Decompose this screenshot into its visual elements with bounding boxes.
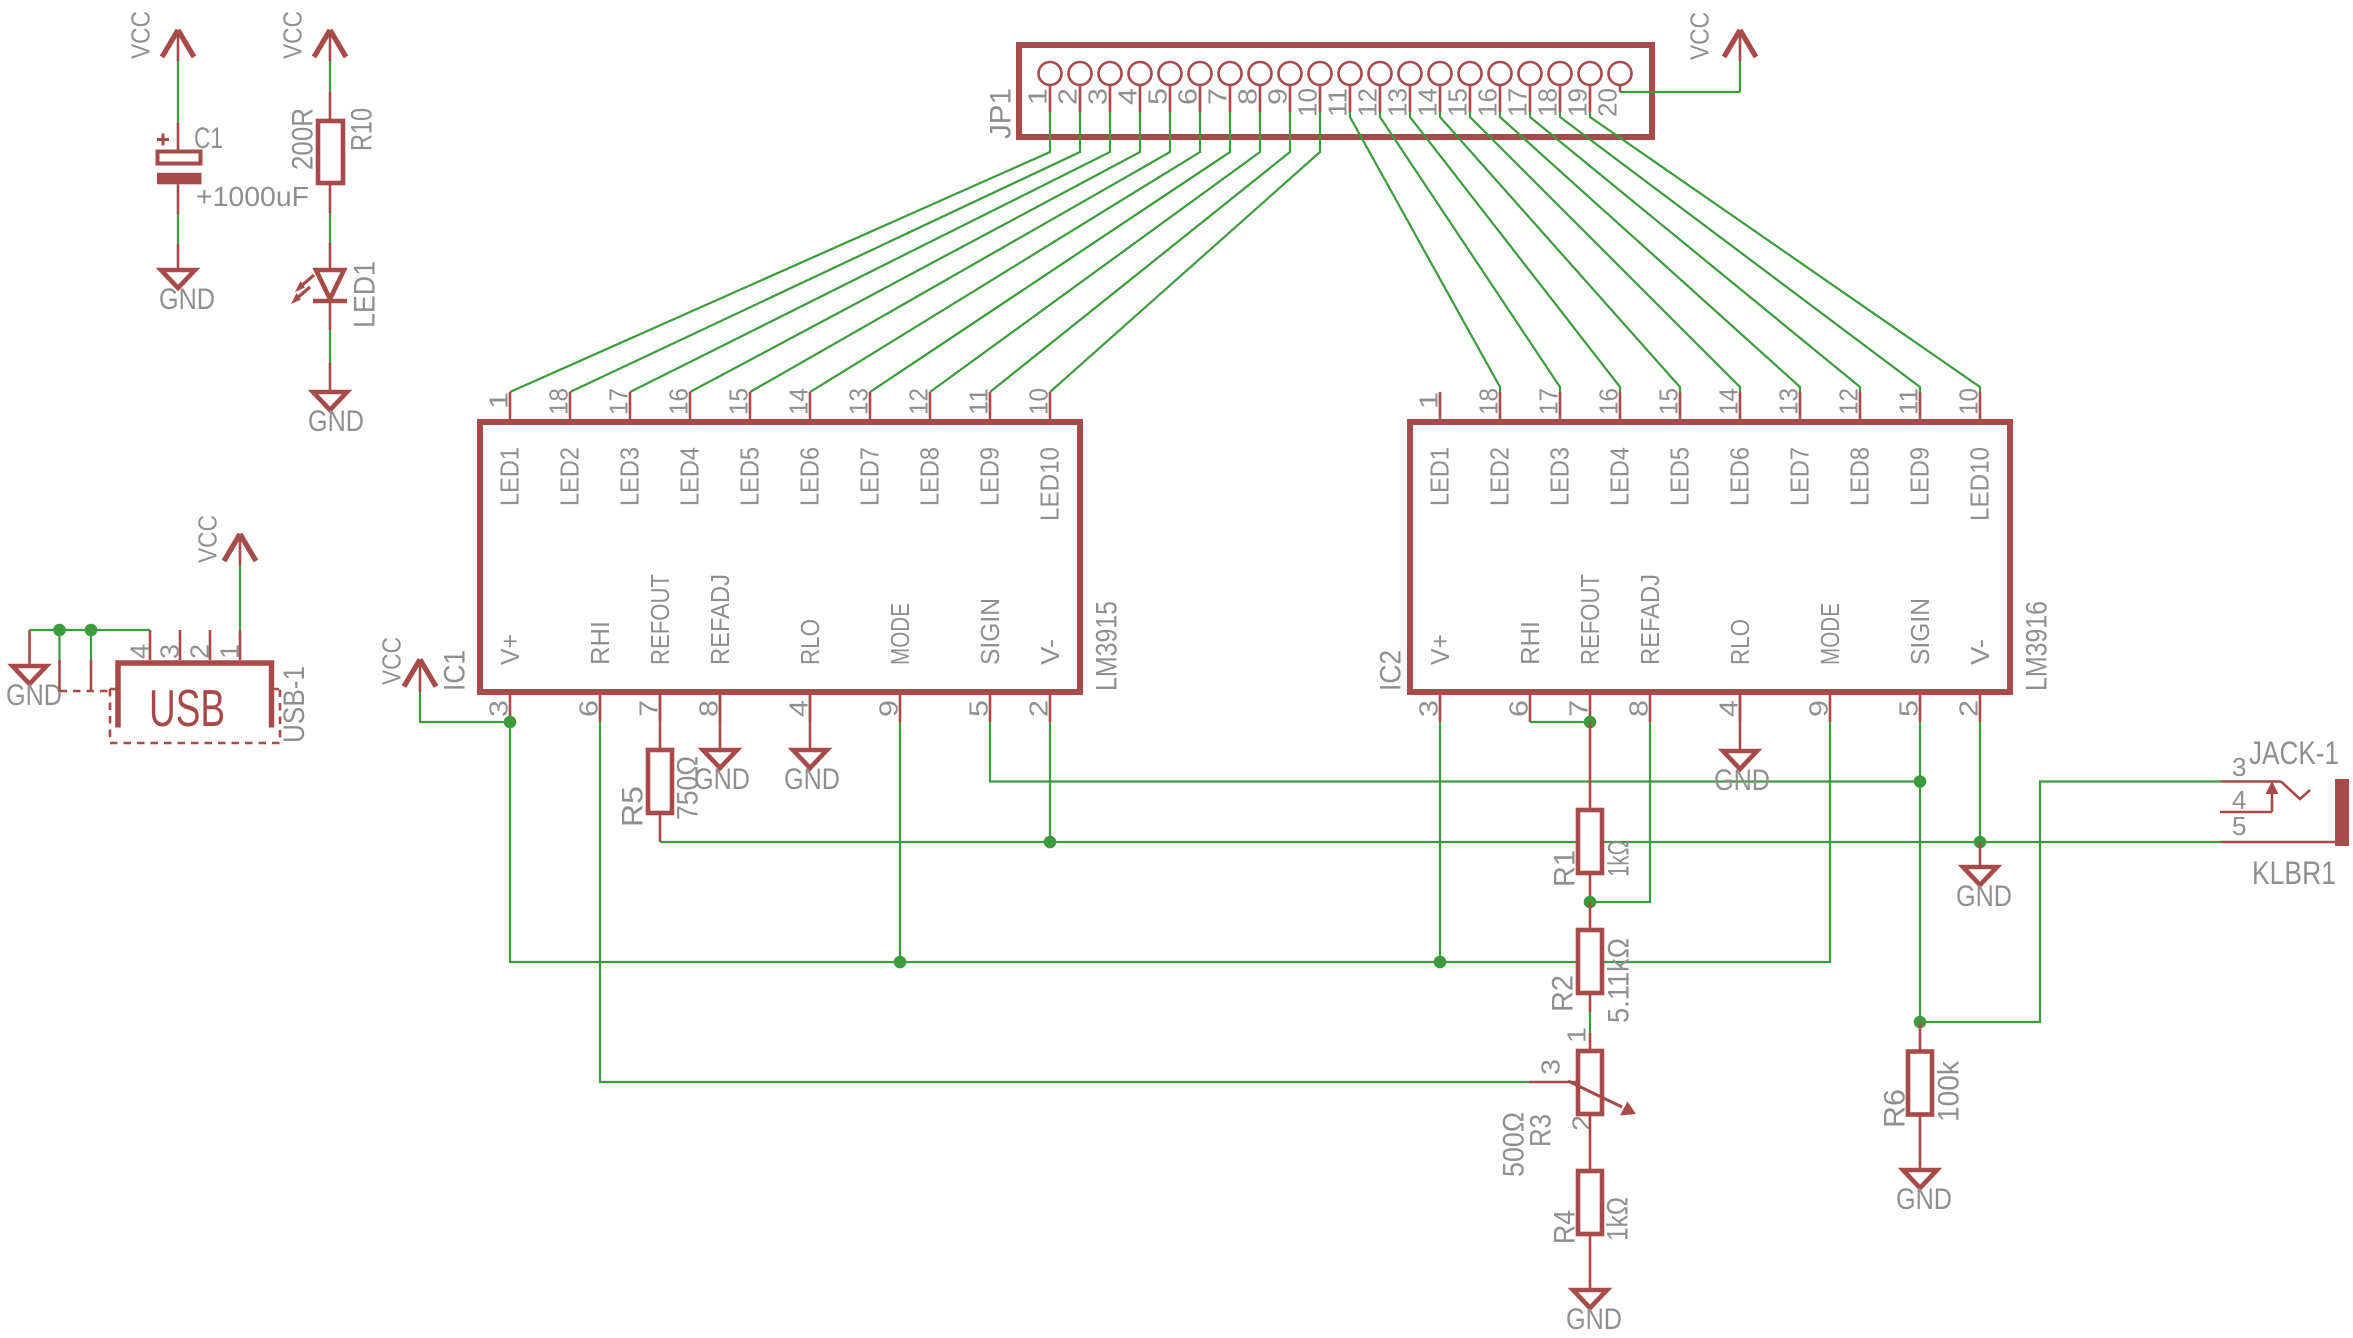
svg-text:GND: GND bbox=[694, 763, 750, 796]
svg-text:LED9: LED9 bbox=[975, 447, 1005, 506]
svg-text:REFOUT: REFOUT bbox=[1575, 574, 1605, 665]
svg-text:6: 6 bbox=[1504, 700, 1534, 717]
wire SIGIN to jack tip bbox=[1920, 782, 2221, 1023]
IC1 top pin stubs bbox=[509, 392, 512, 422]
IC IC1 outline bbox=[480, 422, 1080, 692]
svg-text:GND: GND bbox=[1896, 1183, 1952, 1216]
svg-text:4: 4 bbox=[1113, 88, 1143, 105]
wire USB ground bus bbox=[30, 629, 151, 631]
ground GND (C1) bbox=[161, 270, 195, 288]
svg-text:LED8: LED8 bbox=[915, 447, 945, 506]
svg-text:5: 5 bbox=[2232, 811, 2246, 841]
power symbol VCC (JP1 pin 20) bbox=[1724, 30, 1740, 57]
svg-text:2: 2 bbox=[185, 644, 215, 659]
svg-text:6: 6 bbox=[574, 700, 604, 717]
svg-text:19: 19 bbox=[1563, 88, 1593, 117]
wires JP1 pins 11-19 to IC2 LED pins bbox=[1350, 112, 1500, 392]
wire JP1 pin 20 to VCC bbox=[1620, 91, 1740, 93]
resistor R6 bbox=[1919, 1022, 1922, 1052]
connector JP1 outline bbox=[1019, 45, 1652, 137]
svg-text:3: 3 bbox=[2232, 752, 2246, 782]
svg-text:LED10: LED10 bbox=[1965, 447, 1995, 521]
svg-text:8: 8 bbox=[1624, 700, 1654, 717]
junction SIGIN net bbox=[1914, 775, 1927, 788]
ground GND (R6) bbox=[1903, 1170, 1937, 1188]
svg-text:LED1: LED1 bbox=[495, 447, 525, 506]
svg-text:17: 17 bbox=[604, 388, 634, 415]
svg-text:V-: V- bbox=[1965, 639, 1995, 665]
JP1 pin stubs bbox=[1049, 85, 1052, 112]
svg-text:6: 6 bbox=[1173, 88, 1203, 105]
svg-text:R4: R4 bbox=[1549, 1210, 1582, 1244]
power symbol VCC (USB) bbox=[224, 534, 240, 561]
svg-text:C1: C1 bbox=[194, 122, 223, 155]
svg-text:LED5: LED5 bbox=[1665, 447, 1695, 506]
svg-text:RLO: RLO bbox=[795, 619, 825, 665]
svg-text:GND: GND bbox=[1714, 764, 1770, 797]
svg-text:13: 13 bbox=[844, 388, 874, 415]
svg-text:15: 15 bbox=[1443, 88, 1473, 117]
svg-text:200R: 200R bbox=[287, 108, 320, 170]
junction IC1 V- on GND rail bbox=[1044, 836, 1057, 849]
junction SIGIN / R6 / jack bbox=[1914, 1016, 1927, 1029]
svg-text:12: 12 bbox=[1834, 388, 1864, 415]
wire R1 to R2 bbox=[1589, 873, 1592, 902]
junction IC2 REFOUT bbox=[1584, 716, 1597, 729]
wire C1 to GND bbox=[177, 184, 180, 214]
wire shield pin 1 bbox=[58, 630, 60, 660]
ground GND (IC1 REFADJ) bbox=[719, 692, 722, 750]
power symbol VCC (R10 branch) bbox=[314, 30, 330, 57]
wires JP1 pins 1-10 to IC1 LED pins bbox=[510, 112, 1050, 392]
svg-text:LED7: LED7 bbox=[855, 447, 885, 506]
svg-text:LED3: LED3 bbox=[615, 447, 645, 506]
wire IC1 V- down bbox=[1049, 722, 1051, 842]
ground GND (LED1) bbox=[313, 392, 347, 410]
svg-text:3: 3 bbox=[1414, 700, 1444, 717]
svg-text:2: 2 bbox=[1024, 700, 1054, 717]
wire VCC to IC1 V+ bbox=[419, 662, 422, 692]
wire VCC to R10 bbox=[329, 33, 332, 61]
jack pin 3 contact bbox=[2221, 780, 2281, 783]
svg-text:R6: R6 bbox=[1879, 1089, 1912, 1128]
svg-text:1: 1 bbox=[484, 392, 514, 409]
wire GND rail to jack sleeve bbox=[1980, 841, 2221, 843]
svg-text:LED6: LED6 bbox=[1725, 447, 1755, 506]
svg-text:R2: R2 bbox=[1547, 975, 1580, 1012]
svg-text:LED1: LED1 bbox=[349, 261, 382, 328]
svg-text:RHI: RHI bbox=[1515, 621, 1545, 665]
svg-text:1kΩ: 1kΩ bbox=[1602, 1197, 1635, 1241]
svg-text:GND: GND bbox=[159, 283, 215, 316]
IC2 bottom pin stubs bbox=[1439, 692, 1442, 722]
IC IC2 outline bbox=[1410, 422, 2010, 692]
svg-text:REFADJ: REFADJ bbox=[705, 574, 735, 665]
LED LED1 bbox=[316, 270, 344, 299]
svg-text:LED5: LED5 bbox=[735, 447, 765, 506]
svg-text:100k: 100k bbox=[1933, 1060, 1966, 1122]
svg-text:MODE: MODE bbox=[1815, 603, 1845, 665]
svg-text:REFOUT: REFOUT bbox=[645, 574, 675, 665]
svg-text:13: 13 bbox=[1383, 88, 1413, 117]
svg-text:10: 10 bbox=[1024, 388, 1054, 415]
wire R10 to LED1 bbox=[329, 183, 332, 213]
svg-text:LED6: LED6 bbox=[795, 447, 825, 506]
wire IC2 V- down bbox=[1979, 722, 1981, 842]
svg-text:VCC: VCC bbox=[1685, 12, 1715, 60]
svg-text:14: 14 bbox=[1714, 388, 1744, 415]
wire IC2 RHI to REFOUT bbox=[1530, 721, 1590, 723]
svg-text:LED2: LED2 bbox=[555, 447, 585, 506]
power symbol VCC (C1 branch) bbox=[162, 30, 178, 57]
svg-text:1: 1 bbox=[1023, 88, 1053, 105]
ground GND (IC2 RLO) bbox=[1739, 692, 1742, 751]
USB pin 4 stub bbox=[149, 630, 152, 660]
svg-text:17: 17 bbox=[1534, 388, 1564, 415]
resistor R2 bbox=[1589, 902, 1592, 930]
wire IC1 SIGIN bbox=[990, 722, 1920, 782]
svg-text:5.11kΩ: 5.11kΩ bbox=[1603, 938, 1636, 1023]
svg-text:12: 12 bbox=[1353, 88, 1383, 117]
svg-text:7: 7 bbox=[1203, 88, 1233, 105]
IC2 top pin stubs bbox=[1439, 392, 1442, 422]
svg-text:10: 10 bbox=[1293, 88, 1323, 117]
wire GND rail bbox=[660, 841, 1980, 843]
svg-text:16: 16 bbox=[1473, 88, 1503, 117]
svg-text:11: 11 bbox=[1894, 388, 1924, 415]
svg-text:USB: USB bbox=[149, 680, 225, 738]
connector KLBR1 body bbox=[2335, 779, 2349, 846]
svg-text:R5: R5 bbox=[617, 786, 650, 827]
junction IC1 V+ bbox=[504, 716, 517, 729]
svg-text:IC2: IC2 bbox=[1375, 650, 1408, 691]
svg-text:LED9: LED9 bbox=[1905, 447, 1935, 506]
svg-text:LED10: LED10 bbox=[1035, 447, 1065, 521]
svg-text:1: 1 bbox=[1414, 392, 1444, 409]
wire LED1 to GND bbox=[329, 303, 332, 330]
svg-text:LM3915: LM3915 bbox=[1091, 601, 1124, 691]
svg-text:IC1: IC1 bbox=[439, 650, 472, 691]
svg-text:JACK-1: JACK-1 bbox=[2249, 735, 2339, 771]
svg-text:LED4: LED4 bbox=[1605, 447, 1635, 506]
ground GND (V- rail) bbox=[1979, 842, 1982, 867]
svg-text:1: 1 bbox=[215, 644, 245, 659]
svg-text:18: 18 bbox=[544, 388, 574, 415]
wire R2 to R3 bbox=[1589, 993, 1592, 1012]
svg-text:LED2: LED2 bbox=[1485, 447, 1515, 506]
svg-text:R10: R10 bbox=[346, 108, 379, 151]
ground GND (R4) bbox=[1573, 1290, 1607, 1308]
svg-text:KLBR1: KLBR1 bbox=[2252, 855, 2336, 891]
svg-text:R1: R1 bbox=[1549, 850, 1582, 887]
svg-text:5: 5 bbox=[964, 700, 994, 717]
svg-text:REFADJ: REFADJ bbox=[1635, 574, 1665, 665]
junction R1/R2/REFADJ bbox=[1584, 896, 1597, 909]
USB shield dashed outline bbox=[60, 689, 281, 743]
svg-text:500Ω: 500Ω bbox=[1498, 1112, 1531, 1177]
svg-text:18: 18 bbox=[1533, 88, 1563, 117]
svg-text:3: 3 bbox=[484, 700, 514, 717]
svg-text:V+: V+ bbox=[1425, 634, 1455, 665]
junction (shield 2) bbox=[85, 624, 98, 637]
svg-text:9: 9 bbox=[1263, 88, 1293, 105]
resistor R1 bbox=[1589, 722, 1592, 810]
connector USB-1 body bbox=[118, 663, 272, 728]
svg-text:17: 17 bbox=[1503, 88, 1533, 117]
svg-text:15: 15 bbox=[1654, 388, 1684, 415]
wire R6 to GND bbox=[1919, 1115, 1922, 1171]
power symbol VCC (IC1) bbox=[404, 660, 420, 687]
IC1 bottom pin stubs bbox=[509, 692, 512, 722]
svg-text:GND: GND bbox=[308, 405, 364, 438]
wire VCC to C1 bbox=[177, 33, 180, 61]
svg-text:USB-1: USB-1 bbox=[278, 666, 311, 743]
resistor R5 bbox=[659, 692, 662, 750]
svg-text:JP1: JP1 bbox=[985, 88, 1018, 139]
svg-text:GND: GND bbox=[1956, 880, 2012, 913]
svg-text:11: 11 bbox=[1323, 88, 1353, 117]
svg-text:15: 15 bbox=[724, 388, 754, 415]
junction IC1 MODE on VCC rail bbox=[894, 956, 907, 969]
JP1 pin circles bbox=[1039, 62, 1062, 85]
svg-text:VCC: VCC bbox=[377, 637, 407, 685]
wire R3 to R4 bbox=[1589, 1113, 1592, 1171]
svg-text:3: 3 bbox=[155, 644, 185, 659]
svg-text:MODE: MODE bbox=[885, 603, 915, 665]
wire IC2 SIGIN down bbox=[1919, 722, 1921, 1022]
svg-text:2: 2 bbox=[1053, 88, 1083, 105]
svg-text:GND: GND bbox=[1566, 1303, 1622, 1336]
junction IC2 V+ on VCC rail bbox=[1434, 956, 1447, 969]
svg-text:V-: V- bbox=[1035, 639, 1065, 665]
svg-text:5: 5 bbox=[1894, 700, 1924, 717]
potentiometer R3 bbox=[1578, 1051, 1602, 1114]
svg-text:9: 9 bbox=[874, 700, 904, 717]
svg-text:LED8: LED8 bbox=[1845, 447, 1875, 506]
wire VCC rail bbox=[510, 722, 1830, 962]
svg-text:12: 12 bbox=[904, 388, 934, 415]
svg-text:20: 20 bbox=[1593, 88, 1623, 117]
resistor R4 bbox=[1578, 1171, 1602, 1234]
svg-text:18: 18 bbox=[1474, 388, 1504, 415]
capacitor C1 bbox=[162, 134, 165, 146]
svg-text:V+: V+ bbox=[495, 634, 525, 665]
wire R5 to GND rail bbox=[659, 813, 662, 842]
svg-text:SIGIN: SIGIN bbox=[1905, 598, 1935, 665]
svg-text:3: 3 bbox=[1536, 1059, 1566, 1075]
svg-text:+1000uF: +1000uF bbox=[196, 181, 309, 212]
svg-text:16: 16 bbox=[1594, 388, 1624, 415]
svg-text:9: 9 bbox=[1804, 700, 1834, 717]
USB pin 3 stub bbox=[179, 630, 182, 660]
ground GND (USB) bbox=[28, 630, 31, 666]
junction GND rail / V- / jack bbox=[1974, 836, 1987, 849]
svg-text:GND: GND bbox=[6, 679, 62, 712]
svg-text:5: 5 bbox=[1143, 88, 1173, 105]
svg-text:GND: GND bbox=[784, 763, 840, 796]
svg-text:16: 16 bbox=[664, 388, 694, 415]
wire REFADJ jumper bbox=[1590, 722, 1650, 902]
svg-text:2: 2 bbox=[1567, 1115, 1597, 1131]
svg-text:14: 14 bbox=[784, 388, 814, 415]
ground GND (IC1 RLO) bbox=[809, 692, 812, 750]
resistor R10 bbox=[318, 121, 343, 183]
wire IC2 V+ down bbox=[1439, 722, 1441, 962]
svg-text:LED3: LED3 bbox=[1545, 447, 1575, 506]
wire IC1 MODE down bbox=[899, 722, 901, 962]
svg-text:10: 10 bbox=[1954, 388, 1984, 415]
svg-text:14: 14 bbox=[1413, 88, 1443, 117]
svg-text:LED4: LED4 bbox=[675, 447, 705, 506]
jack pin 4 tip bbox=[2220, 811, 2272, 814]
svg-text:SIGIN: SIGIN bbox=[975, 598, 1005, 665]
svg-text:VCC: VCC bbox=[278, 11, 308, 59]
wire IC1 RHI to R3 wiper bbox=[600, 722, 1529, 1082]
svg-text:1kΩ: 1kΩ bbox=[1603, 840, 1636, 877]
svg-text:RLO: RLO bbox=[1725, 619, 1755, 665]
jack pin 5 sleeve bbox=[2221, 841, 2335, 844]
svg-text:1: 1 bbox=[1562, 1027, 1592, 1043]
USB pin 2 stub bbox=[209, 630, 212, 660]
svg-text:13: 13 bbox=[1774, 388, 1804, 415]
svg-text:8: 8 bbox=[1233, 88, 1263, 105]
wire R4 to GND bbox=[1589, 1234, 1592, 1290]
svg-text:VCC: VCC bbox=[126, 11, 156, 59]
wire VCC to USB pin1 bbox=[239, 537, 242, 565]
svg-text:2: 2 bbox=[1954, 700, 1984, 717]
svg-text:LED7: LED7 bbox=[1785, 447, 1815, 506]
svg-text:LM3916: LM3916 bbox=[2021, 601, 2054, 691]
svg-text:4: 4 bbox=[125, 644, 155, 659]
svg-text:VCC: VCC bbox=[193, 515, 223, 563]
junction (shield 1) bbox=[53, 624, 66, 637]
svg-text:7: 7 bbox=[1564, 700, 1594, 717]
wire shield pin 2 bbox=[90, 630, 92, 660]
svg-text:LED1: LED1 bbox=[1425, 447, 1455, 506]
svg-text:RHI: RHI bbox=[585, 621, 615, 665]
svg-text:11: 11 bbox=[964, 388, 994, 415]
svg-text:3: 3 bbox=[1083, 88, 1113, 105]
